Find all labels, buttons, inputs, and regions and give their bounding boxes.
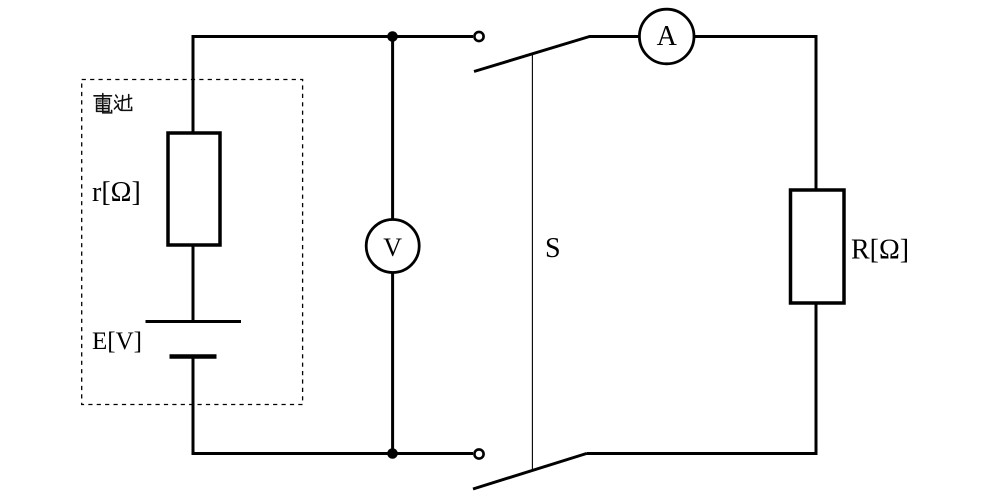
wire top-left horizontal from battery branch to switch contact (192, 35, 474, 38)
wire voltmeter bottom branch (391, 271, 394, 454)
battery enclosure dashed box (82, 80, 303, 405)
svg-text:V: V (383, 233, 402, 262)
wire bottom-left horizontal to switch contact (192, 452, 474, 455)
junction node top (voltmeter tap) (387, 31, 398, 42)
voltmeter U-V circle (366, 220, 419, 273)
battery E negative plate (short thick) (170, 354, 217, 359)
resistor R body (791, 190, 845, 303)
svg-text:r[Ω]: r[Ω] (92, 177, 141, 208)
switch S bottom open contact terminal (474, 449, 483, 458)
wire ammeter to top-right corner and down to resistor R (694, 37, 816, 191)
junction node bottom (voltmeter tap) (387, 448, 398, 459)
switch S mechanical link line (531, 55, 533, 471)
wire resistor r bottom to battery positive plate (192, 245, 195, 322)
svg-text:S: S (545, 233, 561, 264)
switch S top open contact terminal (474, 32, 483, 41)
wire top blade pivot to ammeter (589, 35, 640, 38)
switch S top blade (474, 37, 590, 72)
resistor r1 body (168, 133, 220, 245)
ammeter U-A circle (639, 9, 694, 64)
label 電池 (battery) kanji 池 (114, 95, 131, 111)
svg-text:A: A (657, 21, 678, 52)
switch S bottom blade (473, 454, 587, 490)
label 電池 (battery) kanji 電 (94, 94, 112, 113)
battery E positive plate (long) (146, 320, 242, 323)
wire battery negative down to bottom wire (192, 357, 195, 456)
svg-text:E[V]: E[V] (92, 328, 142, 355)
wire resistor R bottom to bottom-right corner and left to switch (587, 303, 817, 454)
wire left vertical from top wire down to resistor r (192, 35, 195, 134)
wire voltmeter top branch (391, 37, 394, 222)
svg-text:R[Ω]: R[Ω] (851, 235, 909, 266)
